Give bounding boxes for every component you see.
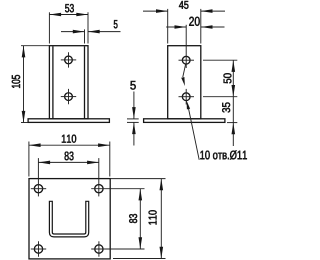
text 83 (rotated) [129, 214, 137, 223]
dim 53: dimension line [49, 14, 88, 16]
dim 50: extension lines [203, 59, 237, 61]
side view: column outline [168, 46, 201, 119]
text 110 [62, 135, 76, 143]
dim 45 left arrow [156, 9, 168, 13]
dim 83 top: extension lines [37, 158, 39, 196]
leader line lower segment [188, 107, 199, 160]
text 110 (rotated) [149, 210, 157, 224]
dim 45: extension lines [167, 9, 169, 44]
dim 83 top right arrow [87, 161, 99, 165]
bottom view: U channel cross-section [49, 201, 88, 237]
dim 83 right: dimension line [139, 189, 141, 249]
front view: base plate [28, 119, 109, 123]
text 45 [179, 1, 188, 9]
text 35 (rotated) [222, 103, 230, 113]
dim 50 top arrow [232, 60, 236, 72]
dim 53 left arrow [49, 13, 61, 17]
text 53 [65, 4, 74, 12]
dim 20 left arrow [175, 25, 187, 29]
front view: left inner wall line [52, 46, 54, 118]
leader arrow at hole 2 [187, 100, 191, 109]
dim 5 (base thickness): arrow lines [133, 92, 135, 119]
dim 110 right top arrow [160, 179, 164, 191]
front view: column outline [49, 46, 88, 119]
side hole 1 crosshair [179, 59, 195, 61]
dim 110 right bottom arrow [160, 247, 164, 259]
dim 110 right: extension lines [110, 178, 165, 180]
front hole 2 crosshair [61, 96, 76, 98]
dim 35: bottom extension line [227, 122, 237, 124]
dim 5 right arrow [88, 30, 100, 34]
side hole 2 crosshair [179, 96, 195, 98]
leader line upper segment [183, 64, 186, 77]
dim 110 top right arrow [98, 143, 110, 147]
text 105 (rotated) [12, 75, 20, 88]
dim 53 right arrow [76, 13, 88, 17]
dim 20: arrow lines [166, 26, 186, 28]
front view hole 2 [65, 93, 73, 101]
dim 5: left arrow line [61, 31, 85, 33]
dim 110 right: dimension line [160, 179, 162, 259]
front view: right inner wall line [84, 46, 86, 118]
dim 45: arrow lines [143, 10, 168, 12]
side view hole 2 [182, 93, 190, 101]
dim 5: right arrow line [88, 31, 121, 33]
bottom view hole top-right [95, 185, 103, 193]
dim 5 (base thickness): extension lines [127, 118, 139, 120]
bottom view hole top-left [34, 185, 42, 193]
dim 105 bottom arrow [22, 111, 26, 123]
side view: base plate [144, 119, 225, 123]
bottom view: square plate [29, 179, 110, 259]
dim 105: bottom extension [21, 122, 28, 124]
dim 35 bottom arrow [232, 123, 236, 135]
text 83 [65, 152, 74, 161]
dim 50 bottom arrow [232, 85, 236, 97]
front hole 1 crosshair [61, 59, 76, 61]
dim 50/35: dimension line [232, 60, 234, 146]
dim 110 top: dimension line [29, 144, 110, 146]
leader arrow near hole 1 [181, 77, 185, 86]
dim 45 right arrow [201, 9, 213, 13]
dim 110 top: extension lines [28, 142, 30, 177]
dim 105 top arrow [22, 46, 26, 58]
text 10 отв.Ø11 [200, 150, 246, 159]
dim 105: top extension [21, 45, 49, 47]
dim 105: dimension line [23, 46, 25, 123]
side view hole 1 [182, 56, 190, 64]
bottom view hole bottom-left [34, 245, 42, 253]
dim 20 right arrow [201, 25, 213, 29]
dim 83 right top arrow [139, 189, 143, 201]
text 5 [114, 20, 118, 28]
dim 5 left arrow [73, 30, 85, 34]
dim 83 top left arrow [38, 161, 50, 165]
dim 110 top left arrow [29, 143, 41, 147]
text 50 (rotated) [223, 73, 231, 83]
dim 5: extension line [84, 29, 86, 43]
dim 83 right bottom arrow [139, 237, 143, 249]
dim 20: hole center extension line [185, 25, 187, 68]
bottom hole crosshairs [31, 188, 46, 190]
dim 83 top: dimension line [38, 161, 98, 163]
dim 5 base bottom arrow [132, 122, 136, 134]
text 5 [130, 81, 135, 90]
front view hole 1 [65, 56, 73, 64]
dim 53: extension lines [48, 12, 50, 43]
dim 5 base top arrow [132, 107, 136, 119]
text 20 [189, 17, 199, 26]
bottom view hole bottom-right [95, 245, 103, 253]
